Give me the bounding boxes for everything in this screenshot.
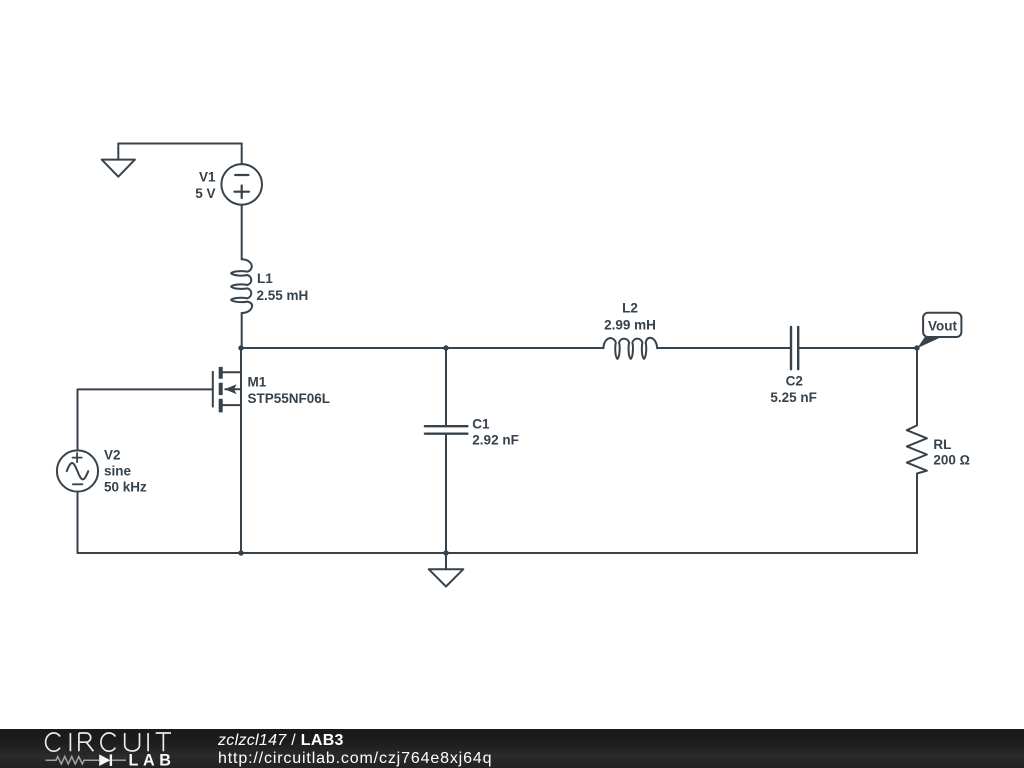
svg-text:sine: sine: [104, 464, 132, 479]
label V2 sine 50 kHz: [104, 448, 147, 495]
CircuitLab logo: [0, 729, 210, 768]
ground GND2 bottom: [429, 553, 464, 587]
svg-text:V1: V1: [199, 169, 216, 184]
wire L1 to node: [241, 313, 243, 348]
wire V1 to L1: [241, 205, 243, 260]
label L2 2.99 mH: [604, 300, 656, 332]
wire MOSFET source down: [240, 405, 242, 553]
node junction C1 bottom: [443, 550, 448, 555]
main horizontal wire: [241, 347, 917, 349]
source V2 sine: [57, 450, 98, 491]
wire gate to V2: [78, 389, 213, 450]
label M1 STP55NF06L: [248, 375, 331, 407]
svg-text:L2: L2: [622, 300, 638, 315]
wire C1 top: [445, 348, 447, 426]
capacitor C2: [791, 327, 798, 369]
ground GND1 top-left: [102, 144, 242, 177]
node junction source-bottom: [238, 550, 243, 555]
svg-text:2.99 mH: 2.99 mH: [604, 317, 656, 332]
transistor M1 NMOS: [213, 367, 241, 413]
svg-text:50 kHz: 50 kHz: [104, 480, 147, 495]
svg-text:RL: RL: [933, 437, 951, 452]
svg-text:STP55NF06L: STP55NF06L: [248, 391, 331, 406]
label L1 2.55 mH: [257, 271, 309, 303]
svg-text:V2: V2: [104, 448, 121, 463]
svg-text:200 Ω: 200 Ω: [933, 452, 970, 467]
voltage source V1: [221, 164, 262, 205]
resistor RL: [907, 425, 927, 475]
footer bar: [0, 729, 1024, 768]
svg-text:Vout: Vout: [928, 319, 957, 334]
label RL 200 ohm: [933, 437, 970, 468]
node junction Vout: [914, 345, 919, 350]
label V1 5 V: [195, 169, 216, 201]
svg-text:LAB: LAB: [129, 751, 176, 768]
wire V1 top: [241, 144, 243, 165]
wire V2 to bottom rail: [78, 492, 918, 553]
wire Vout to RL: [916, 348, 918, 425]
svg-text:M1: M1: [248, 375, 267, 390]
svg-text:L1: L1: [257, 271, 273, 286]
node junction at drain: [238, 345, 243, 350]
inductor L2: [603, 338, 657, 359]
wire RL to bottom rail: [916, 474, 918, 554]
node flag Vout: [917, 313, 961, 348]
svg-text:5.25 nF: 5.25 nF: [770, 390, 817, 405]
svg-text:2.55 mH: 2.55 mH: [257, 288, 309, 303]
inductor L1: [231, 259, 252, 313]
svg-text:5 V: 5 V: [195, 186, 215, 201]
wire drain: [240, 348, 242, 372]
svg-text:C1: C1: [472, 416, 490, 431]
wire C1 bottom: [445, 434, 447, 553]
svg-text:C2: C2: [786, 374, 803, 389]
label C2 5.25 nF: [770, 374, 817, 405]
svg-text:2.92 nF: 2.92 nF: [472, 432, 519, 447]
node junction C1 top: [443, 345, 448, 350]
footer text: [218, 732, 492, 768]
capacitor C1: [425, 426, 468, 434]
label C1 2.92 nF: [472, 416, 519, 447]
